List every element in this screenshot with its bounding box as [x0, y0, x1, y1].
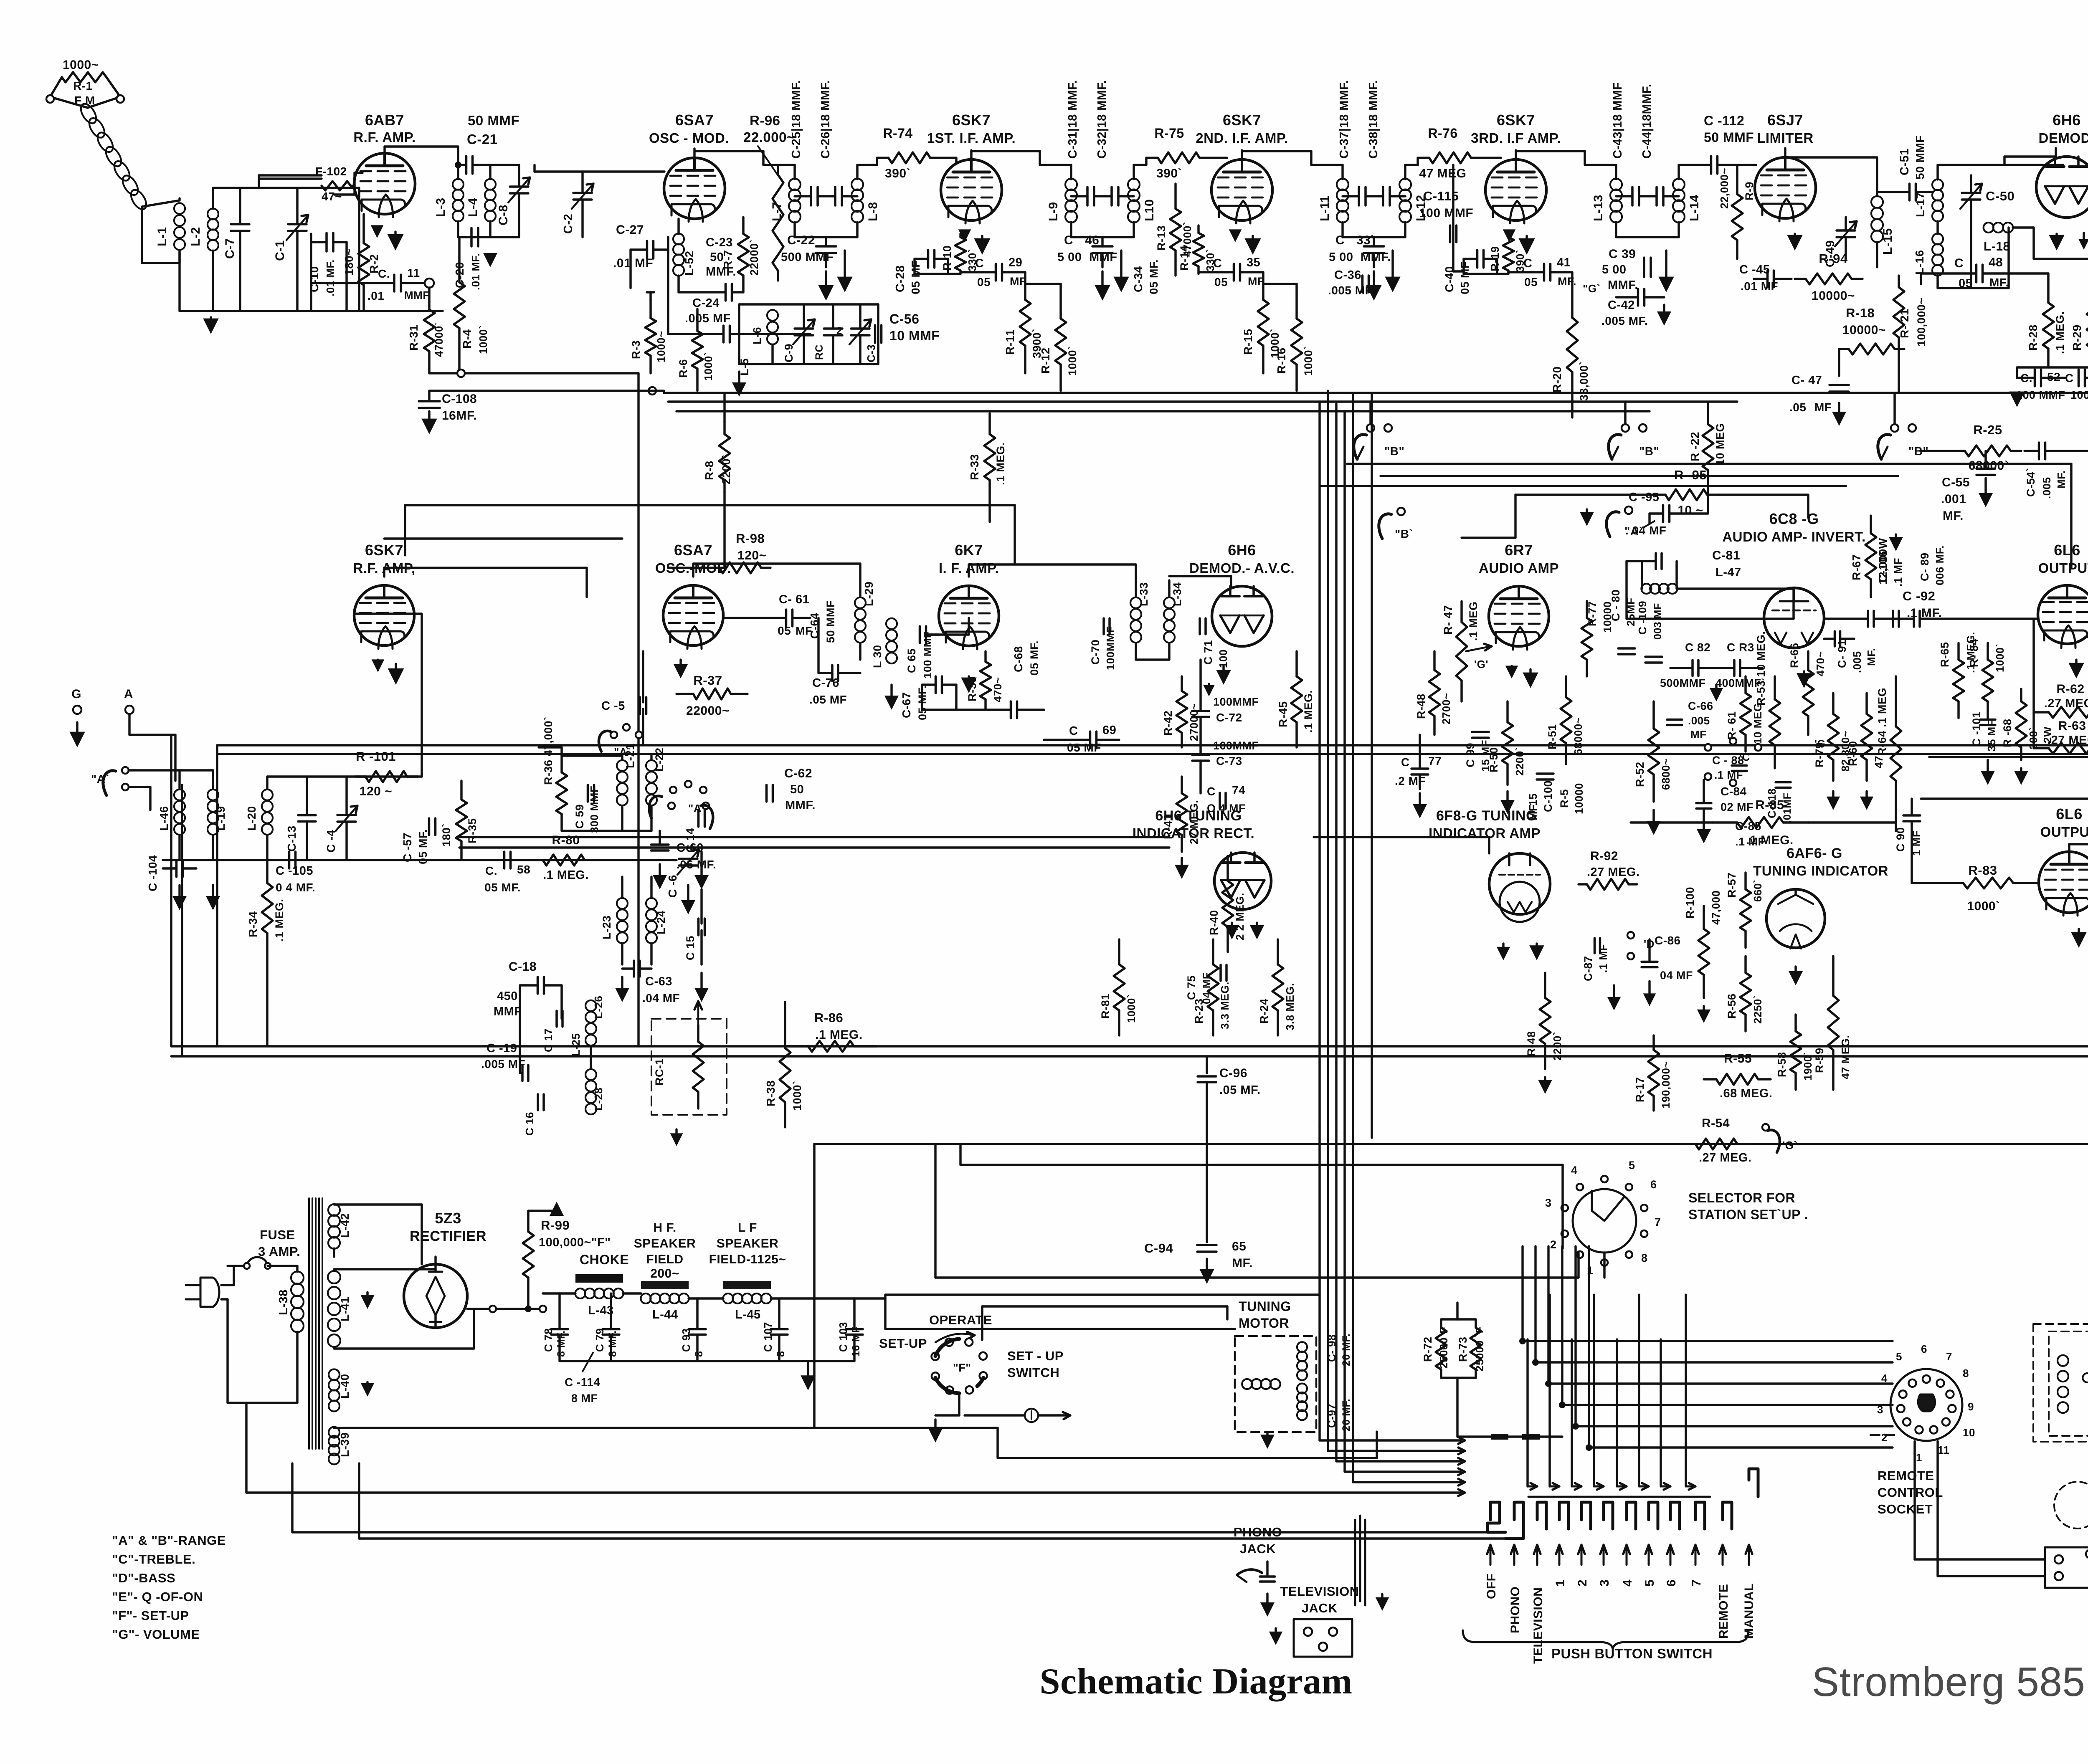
svg-text:R-40: R-40 [1208, 910, 1220, 935]
resistor R-41 27MEG [1181, 777, 1183, 793]
wire plug to fuse [221, 1284, 234, 1286]
svg-text:C-44|18MMF.: C-44|18MMF. [1640, 84, 1654, 159]
resistor R-74 390 to grid [857, 164, 877, 166]
svg-text:R-64 .1 MEG: R-64 .1 MEG [1876, 688, 1888, 756]
terminal bus node [649, 387, 656, 395]
secondary L-41 HV [328, 1271, 340, 1283]
svg-text:R-75: R-75 [1154, 126, 1184, 141]
cathode arrow 6SJ7 [1794, 234, 1796, 237]
svg-text:04 MF: 04 MF [1660, 969, 1693, 982]
resistor R-76 47MEG [1405, 164, 1418, 166]
svg-text:R-31: R-31 [407, 324, 420, 351]
svg-text:C 15: C 15 [684, 936, 697, 960]
capacitor C-95 .04MF [1662, 505, 1665, 522]
IF transformer coils L-11/L-12 [1341, 165, 1343, 179]
wire 6K7 grid [926, 633, 939, 635]
svg-text:R-96: R-96 [750, 113, 780, 128]
shielded lead phono [1354, 1520, 1356, 1605]
push button switch buttons [1537, 1502, 1546, 1529]
terminal G [73, 706, 81, 714]
svg-text:2 2 MEG.: 2 2 MEG. [1234, 893, 1246, 940]
svg-text:C-23: C-23 [706, 236, 733, 249]
coil L-21 [617, 760, 628, 771]
svg-text:L-22: L-22 [653, 747, 666, 772]
capacitor C-10 .01MF [325, 233, 328, 251]
svg-text:65: 65 [1232, 1240, 1246, 1253]
svg-text:.005 MF: .005 MF [685, 312, 731, 325]
svg-text:R- 61: R- 61 [1726, 711, 1738, 740]
resistor R-21 100000 [1898, 276, 1900, 287]
cathode arrow 6C8 [1803, 671, 1805, 675]
svg-text:STATION SET`UP .: STATION SET`UP . [1688, 1207, 1808, 1222]
svg-text:INDICATOR AMP: INDICATOR AMP [1429, 825, 1541, 841]
wire cathode bottom 6SK7 [915, 273, 960, 275]
wire plate bus to L-7 [763, 164, 795, 166]
svg-text:C-72: C-72 [1216, 711, 1242, 724]
svg-text:C-13: C-13 [285, 825, 298, 852]
svg-text:6SJ7: 6SJ7 [1767, 111, 1803, 129]
svg-text:6AB7: 6AB7 [365, 111, 404, 129]
ground arrow transformer [1391, 251, 1394, 278]
cathode arrows 6SK7-2 [1234, 231, 1236, 232]
capacitor C-8 variable [510, 185, 528, 188]
B supply terminal flags [1367, 424, 1374, 432]
svg-text:C-27: C-27 [616, 223, 644, 237]
svg-text:C-51: C-51 [1898, 148, 1911, 175]
secondary L-40 [329, 1369, 340, 1380]
motor windings dashed [2058, 1355, 2068, 1366]
wires RF transformer 2 [562, 754, 622, 757]
svg-text:OUTPUT: OUTPUT [2040, 824, 2088, 840]
capacitors C-52 C-53 100MMF [2017, 366, 2088, 368]
svg-text:100MMF: 100MMF [2070, 389, 2088, 401]
left vertical bus pair [170, 735, 172, 1046]
svg-text:C -95: C -95 [1629, 491, 1659, 504]
ground osc tank [738, 372, 740, 384]
resistor R-47 1MEG pot [1460, 601, 1462, 622]
svg-text:R-80: R-80 [552, 833, 580, 847]
resistor R-35 180 [460, 781, 462, 800]
svg-text:AUDIO AMP: AUDIO AMP [1479, 560, 1559, 576]
svg-text:MMF.: MMF. [1608, 278, 1638, 292]
svg-text:R- 84: R- 84 [1968, 638, 1980, 667]
svg-text:6SA7: 6SA7 [674, 542, 712, 559]
svg-text:L-16: L-16 [1913, 250, 1926, 275]
resistor R-79 82800 [1832, 693, 1834, 714]
svg-text:3 AMP.: 3 AMP. [258, 1244, 300, 1259]
wire transformer bottom [1616, 236, 1679, 238]
resistor R-14 330 [1197, 225, 1199, 233]
AC plug [186, 1278, 219, 1307]
svg-text:L-25: L-25 [570, 1033, 582, 1056]
svg-text:450: 450 [497, 990, 518, 1003]
svg-text:C-40: C-40 [1443, 266, 1456, 292]
resistor R-77 10000 [1586, 601, 1588, 618]
svg-text:R-35: R-35 [466, 818, 479, 843]
IF transformer coils L-7/L-8 [793, 165, 796, 179]
grid top cap wire [384, 537, 622, 539]
capacitor C-7 [231, 223, 249, 225]
svg-text:L-26: L-26 [592, 996, 605, 1019]
vertical bus drop x1529 [637, 373, 639, 1046]
svg-text:6C8 -G: 6C8 -G [1769, 510, 1819, 527]
svg-text:27000~: 27000~ [1188, 704, 1200, 741]
svg-text:.1 MEG: .1 MEG [1467, 601, 1480, 641]
svg-text:MMF: MMF [404, 289, 430, 301]
resistor R-68 200 2W [2020, 689, 2022, 701]
svg-text:50 MMF: 50 MMF [824, 600, 837, 643]
svg-text:6SA7: 6SA7 [675, 111, 714, 129]
svg-text:R-54: R-54 [1702, 1116, 1730, 1130]
svg-text:.005 MF.: .005 MF. [1601, 314, 1648, 327]
svg-text:"A`: "A` [614, 746, 631, 758]
junction C-20 [458, 236, 519, 238]
svg-text:6800~: 6800~ [1660, 758, 1672, 790]
resistor R-72 25000F [1440, 1319, 1442, 1328]
long wires bottom interconnect [814, 1143, 2088, 1145]
resistor R-23 3.3MEG [1212, 939, 1214, 964]
svg-text:R-25: R-25 [1973, 423, 2002, 437]
coil L-30 [886, 618, 897, 629]
svg-text:.1 MEG.: .1 MEG. [815, 1028, 863, 1042]
svg-text:C: C [2065, 372, 2074, 385]
capacitor C-22 500MMF [816, 245, 836, 248]
svg-text:R-65: R-65 [1938, 642, 1951, 667]
wire plate 6SK7-3 to L-13 [1515, 150, 1517, 158]
svg-text:6H6 TUNING: 6H6 TUNING [1155, 808, 1242, 824]
svg-text:8: 8 [775, 1351, 787, 1357]
resistor R-56 2250 [1744, 956, 1746, 973]
wire plate 6SA7 up to interstage [693, 149, 695, 158]
svg-text:C 90: C 90 [1894, 827, 1907, 852]
wire demod plate top [2055, 148, 2057, 157]
svg-text:.27 MEG.: .27 MEG. [1587, 866, 1640, 879]
svg-text:10 MMF: 10 MMF [889, 328, 940, 343]
capacitor C-17 [555, 1011, 558, 1027]
svg-text:.27 MEG.: .27 MEG. [2044, 697, 2088, 710]
svg-text:R-99: R-99 [541, 1218, 570, 1233]
svg-text:L-44: L-44 [652, 1308, 678, 1321]
vertical drop R-8 [723, 493, 725, 568]
svg-text:C-85: C-85 [1735, 820, 1761, 833]
svg-text:22000~: 22000~ [686, 704, 730, 718]
capacitor C-1 variable [288, 223, 307, 225]
svg-text:2ND. I.F. AMP.: 2ND. I.F. AMP. [1196, 130, 1288, 146]
svg-text:JACK: JACK [1240, 1541, 1276, 1556]
svg-text:C-24: C-24 [692, 296, 720, 310]
svg-text:.05 MF: .05 MF [809, 693, 847, 706]
resistor R-67 12000W [1870, 516, 1872, 534]
svg-text:TELEVISION: TELEVISION [1280, 1584, 1359, 1599]
svg-text:100 MMF: 100 MMF [1419, 206, 1473, 220]
twisted feed line [78, 101, 99, 126]
svg-text:C 59: C 59 [573, 804, 586, 829]
svg-text:L-8: L-8 [866, 202, 880, 222]
svg-text:R-23: R-23 [1193, 998, 1205, 1024]
capacitor C-15 [697, 919, 700, 935]
svg-text:68000`: 68000` [1969, 459, 2009, 473]
wire plate 6SK7 to L-9 [970, 150, 972, 158]
resistor R-48b 2200 [1544, 973, 1546, 998]
wire 6SA7 bottom to oscillator tank [667, 250, 669, 334]
svg-text:R-36 47,000`: R-36 47,000` [542, 716, 555, 785]
svg-text:"B": "B" [1384, 445, 1404, 458]
svg-text:MF.: MF. [1943, 509, 1964, 523]
svg-text:MF: MF [1690, 728, 1707, 741]
svg-text:C 99: C 99 [1464, 743, 1477, 767]
svg-text:INDICATOR RECT.: INDICATOR RECT. [1133, 825, 1254, 841]
svg-text:R- 47: R- 47 [1442, 605, 1455, 635]
wire 6C8 to 6L6 grid [1954, 618, 2037, 620]
svg-text:CHOKE: CHOKE [580, 1252, 629, 1267]
svg-text:C- 47: C- 47 [1792, 374, 1822, 387]
svg-text:L-20: L-20 [245, 806, 258, 831]
svg-text:C 71: C 71 [1202, 640, 1214, 665]
svg-text:"B": "B" [1908, 445, 1928, 458]
svg-text:C-10: C-10 [308, 266, 321, 292]
svg-text:11: 11 [407, 266, 420, 279]
svg-text:L-17: L-17 [1914, 192, 1927, 217]
svg-text:22,000~: 22,000~ [1718, 168, 1731, 209]
cathode arrow 6L6 lower [2078, 929, 2080, 934]
arrows 6H6 tuning [1231, 923, 1233, 927]
svg-text:C 16: C 16 [523, 1112, 536, 1136]
svg-text:DEMOD.: DEMOD. [2039, 130, 2088, 146]
svg-text:C-50: C-50 [1986, 189, 2015, 203]
svg-text:C 39: C 39 [1609, 247, 1636, 261]
svg-text:.1 MF: .1 MF [1597, 944, 1609, 973]
coil L-16 [1932, 234, 1943, 245]
svg-text:8: 8 [1963, 1367, 1969, 1379]
svg-text:3RD. I.F AMP.: 3RD. I.F AMP. [1471, 130, 1561, 146]
svg-text:.005 MF: .005 MF [481, 1058, 525, 1071]
resistor R-73 25000F [1475, 1319, 1477, 1328]
svg-text:2: 2 [1881, 1431, 1888, 1444]
push button arrows [1490, 1547, 1492, 1565]
resistor R-6 1000 [696, 309, 698, 331]
resistor R-60 47 [1865, 693, 1868, 714]
capacitor C-4 variable [337, 814, 356, 816]
resistor R-28 1MEG [2047, 284, 2049, 303]
svg-text:C-84: C-84 [1721, 785, 1747, 798]
svg-text:'G': 'G' [1474, 658, 1488, 671]
primary L-38 [291, 1271, 304, 1284]
cathode arrows 6H6 [2055, 234, 2058, 237]
band switch A [611, 731, 617, 738]
svg-text:46: 46 [1085, 233, 1099, 247]
resistor R-19 390 [1507, 234, 1509, 237]
svg-text:R -68: R -68 [2001, 719, 2014, 747]
wire R-95 frame [1515, 494, 1653, 496]
capacitors C-43|18 MMF/C-44|18MMF. across transformer [1631, 187, 1634, 205]
svg-text:C: C [1954, 256, 1964, 270]
wire audio coupling [1792, 589, 1794, 619]
svg-text:35: 35 [1247, 256, 1260, 269]
bus pair below indicator row [171, 1045, 2088, 1047]
cathode arrow 6AF6 [1794, 967, 1797, 973]
svg-text:47000`: 47000` [433, 322, 445, 357]
svg-text:L-1: L-1 [155, 227, 169, 247]
svg-text:C: C [1064, 233, 1073, 247]
wire to 6SK7-2 grid [1211, 157, 1227, 159]
svg-text:6R7: 6R7 [1505, 542, 1533, 559]
cathode arrows 6R7 [1510, 666, 1513, 667]
svg-text:1000`: 1000` [1302, 346, 1315, 376]
svg-text:R-51: R-51 [1546, 724, 1558, 749]
remote socket dash marks [1871, 1434, 1879, 1436]
svg-text:50: 50 [710, 251, 724, 264]
wire limiter plate top [1784, 148, 1786, 157]
svg-text:R-52: R-52 [1634, 762, 1646, 787]
svg-text:"C"-TREBLE.: "C"-TREBLE. [112, 1552, 195, 1567]
svg-text:L-9: L-9 [1047, 202, 1060, 222]
resistor R-20 33000 G [1571, 272, 1573, 318]
svg-text:"D"-BASS: "D"-BASS [112, 1571, 175, 1585]
capacitor C-94 65MF [1206, 1127, 1208, 1242]
resistor R-36 47000 [560, 756, 563, 772]
svg-text:L-34: L-34 [1171, 582, 1183, 606]
svg-text:C 82: C 82 [1685, 641, 1710, 654]
svg-text:5: 5 [1896, 1350, 1902, 1363]
antenna dipole wires [50, 77, 88, 108]
resistor R-24 3.8MEG [1277, 939, 1279, 964]
svg-text:02 MF: 02 MF [1721, 801, 1754, 813]
svg-text:C 75: C 75 [1185, 975, 1198, 1000]
resistor R-12 1000 [1059, 292, 1062, 319]
dashed circle motor [2054, 1482, 2088, 1529]
svg-text:05 MF: 05 MF [1459, 261, 1471, 294]
svg-text:1000`: 1000` [1066, 346, 1079, 376]
svg-text:R-48: R-48 [1525, 1031, 1538, 1056]
svg-text:.04 MF: .04 MF [642, 992, 680, 1005]
svg-text:10 MEG.: 10 MEG. [1751, 700, 1764, 744]
svg-text:R-28: R-28 [2027, 324, 2040, 351]
svg-text:C-73: C-73 [1216, 754, 1242, 767]
svg-text:C: C [1069, 724, 1078, 738]
svg-text:180~: 180~ [342, 248, 355, 276]
svg-text:9: 9 [1968, 1400, 1974, 1413]
svg-text:05 MF.: 05 MF. [484, 881, 521, 894]
svg-text:R-1: R-1 [73, 79, 93, 92]
svg-text:L-23: L-23 [601, 915, 613, 939]
svg-text:C: C [1207, 785, 1216, 798]
svg-text:R-12: R-12 [1039, 347, 1052, 374]
svg-text:MMF.: MMF. [706, 265, 736, 278]
svg-text:41: 41 [1557, 256, 1571, 269]
resistor R-45 1MEG [1295, 651, 1297, 676]
svg-text:200~: 200~ [650, 1267, 679, 1281]
svg-text:R-53 10 MEG.: R-53 10 MEG. [1755, 631, 1767, 706]
svg-text:69: 69 [1102, 724, 1116, 737]
svg-text:MF.: MF. [1865, 648, 1878, 666]
svg-text:05: 05 [1959, 277, 1972, 290]
svg-text:R-83: R-83 [1968, 863, 1997, 878]
coil L-4 [485, 179, 496, 190]
svg-text:.005: .005 [1851, 651, 1863, 673]
svg-text:R.F. AMP.: R.F. AMP. [353, 129, 416, 145]
demod transformer wires [1936, 165, 1938, 180]
svg-text:22.000~: 22.000~ [743, 129, 795, 145]
resistor R-94 10000 [1795, 278, 1806, 280]
svg-text:6SK7: 6SK7 [1223, 111, 1261, 129]
wire to C-8 [490, 164, 519, 166]
svg-text:REMOTE: REMOTE [1717, 1584, 1731, 1639]
svg-text:.005: .005 [2040, 477, 2053, 499]
wire to limiter grid [1737, 164, 1756, 166]
svg-text:05: 05 [1524, 276, 1538, 289]
svg-text:8: 8 [1641, 1252, 1648, 1264]
wire to 6SK7rf grid [421, 614, 423, 777]
cathode arrows 6SK7 [963, 231, 965, 232]
svg-text:JACK: JACK [1302, 1601, 1338, 1615]
svg-text:22000`: 22000` [748, 239, 760, 276]
svg-text:R-14: R-14 [1178, 245, 1191, 271]
svg-text:C-106: C-106 [1877, 551, 1889, 582]
svg-text:7: 7 [1946, 1350, 1952, 1363]
svg-text:R-20: R-20 [1551, 366, 1563, 392]
svg-text:C -19: C -19 [487, 1042, 517, 1055]
svg-text:300 MMF: 300 MMF [588, 786, 601, 833]
fuse links on R72 line [1491, 1434, 1508, 1440]
plate wire 6SA7-2 [692, 564, 694, 577]
dashed box RC-1 [651, 1019, 727, 1115]
svg-text:1000`: 1000` [1994, 643, 2006, 672]
wire osc outputs [817, 618, 819, 673]
svg-text:2: 2 [1550, 1238, 1557, 1251]
svg-text:R-62: R-62 [2056, 682, 2084, 696]
wire bus B+ under stage1 [429, 372, 639, 374]
svg-text:16MF.: 16MF. [442, 409, 477, 423]
svg-text:RC-1: RC-1 [653, 1058, 666, 1086]
svg-text:1000`: 1000` [702, 352, 715, 381]
svg-text:L-33: L-33 [1138, 582, 1150, 606]
svg-text:R-24: R-24 [1258, 998, 1270, 1024]
svg-text:"A`: "A` [1624, 525, 1643, 538]
svg-text:.01: .01 [367, 289, 384, 302]
svg-text:3: 3 [1545, 1197, 1552, 1209]
svg-text:TUNING INDICATOR: TUNING INDICATOR [1753, 863, 1888, 878]
svg-text:C 93: C 93 [680, 1328, 692, 1352]
arrow RC-1 up [697, 1002, 699, 1025]
terminal A [125, 706, 134, 714]
svg-text:33`: 33` [1356, 233, 1375, 247]
svg-text:C-: C- [779, 593, 792, 606]
svg-text:2: 2 [1576, 1579, 1589, 1587]
svg-text:L-46: L-46 [157, 806, 170, 831]
svg-text:R-45: R-45 [1277, 701, 1290, 727]
svg-text:470~: 470~ [991, 677, 1004, 702]
coils L-23 L-24 band2 [617, 898, 628, 909]
svg-text:L-13: L-13 [1591, 195, 1605, 221]
capacitor C-14 [697, 810, 700, 827]
long wires transformer lower to push buttons [342, 1427, 998, 1429]
extra mid lines audio [459, 836, 1169, 838]
resistor R-2 180 ohm [362, 217, 365, 243]
svg-text:390`: 390` [885, 167, 911, 180]
svg-text:C-34: C-34 [1132, 266, 1145, 292]
wire speaker line terminal 3 [1929, 756, 2088, 758]
svg-text:SPEAKER: SPEAKER [717, 1237, 779, 1250]
resistor R-40 2.2MEG [1226, 856, 1229, 881]
svg-text:MF.: MF. [2055, 471, 2068, 488]
svg-text:C-22: C-22 [787, 233, 815, 247]
wire A terminal down [128, 714, 130, 735]
capacitor C-6 variable [679, 858, 697, 860]
svg-text:C - 80: C - 80 [1609, 589, 1622, 621]
svg-text:C: C [1523, 257, 1532, 270]
svg-text:MF.: MF. [1232, 1256, 1253, 1270]
svg-text:MMF.: MMF. [785, 799, 816, 812]
